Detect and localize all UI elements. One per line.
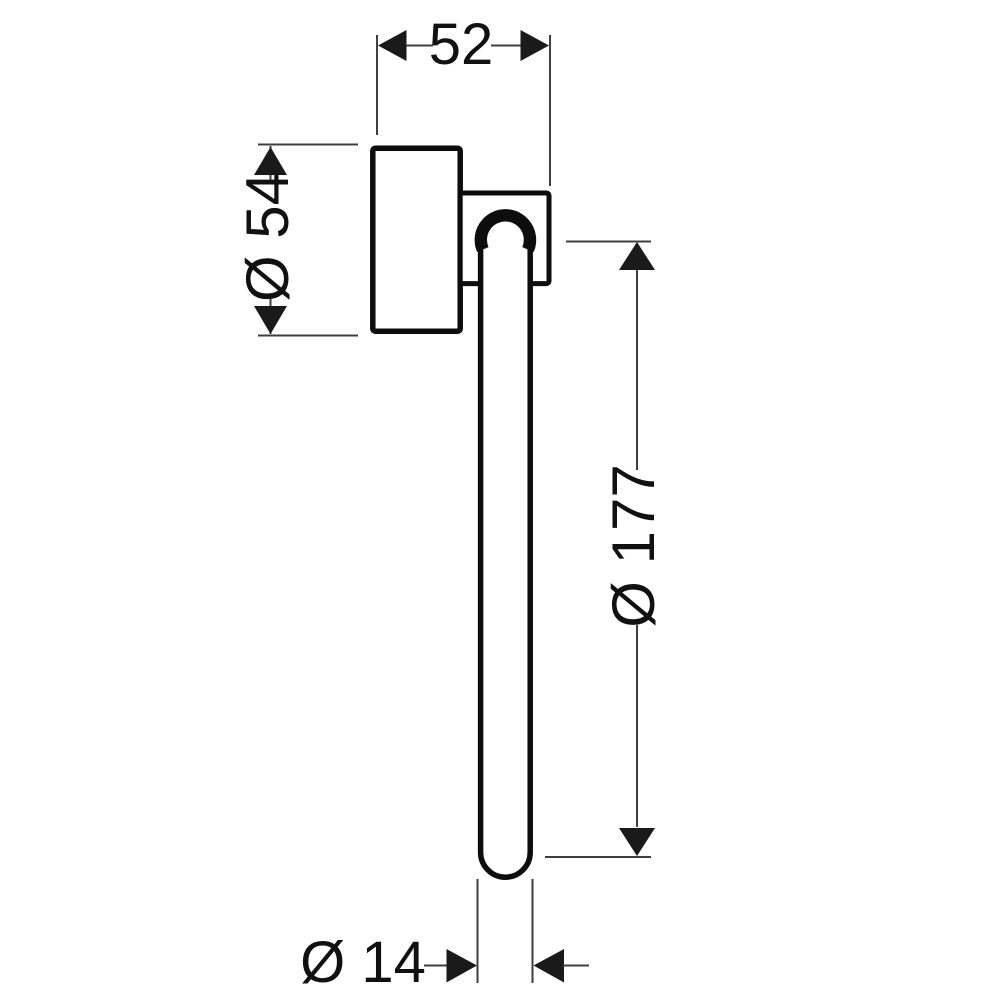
mounting bracket (square holder): [460, 193, 549, 284]
dimension O14: right extension line: [532, 879, 534, 983]
dimension O14: left arrow: [447, 949, 478, 983]
dimension 52: left extension line: [376, 35, 378, 135]
svg-text:Ø 54: Ø 54: [234, 172, 301, 302]
dimension O54: up arrow: [254, 147, 287, 175]
dimension O177: down arrow: [619, 828, 655, 856]
dimension O14: left stem: [424, 965, 448, 967]
dimension O54: top extension line: [258, 144, 358, 146]
dimension 52: right stem: [491, 45, 521, 47]
towel ring bar (capsule silhouette, white fill): [481, 215, 531, 877]
dimension 52: value label: [429, 12, 494, 77]
dimension O177: up arrow: [619, 242, 655, 270]
dimension O14: value label: [300, 930, 426, 995]
dimension O177: top extension line: [566, 241, 651, 243]
wall plate (side view rectangle): [373, 148, 460, 331]
dimension 52: left arrow: [378, 30, 407, 61]
dimension O14: left extension line: [477, 879, 479, 983]
dimension O177: value label (rotated): [600, 464, 667, 627]
dimension O177: lower stem: [636, 625, 638, 827]
dimension 52: right extension line: [549, 35, 551, 186]
dimension O14: right arrow: [534, 949, 565, 983]
dimension O54: down arrow: [254, 306, 287, 334]
svg-text:Ø 177: Ø 177: [600, 464, 667, 627]
svg-text:52: 52: [429, 12, 494, 77]
dimension 52: right arrow: [521, 30, 550, 61]
dimension O54: value label (rotated): [234, 172, 301, 302]
dimension O54: bottom extension line: [258, 335, 358, 337]
dimension 52: left stem: [406, 45, 433, 47]
dimension O54: upper stem: [270, 146, 272, 183]
dimension O177: upper stem: [636, 270, 638, 470]
dimension O54: lower stem: [270, 297, 272, 334]
towel bar top cap (thick arc): [481, 215, 530, 249]
svg-text:Ø 14: Ø 14: [300, 930, 426, 995]
dimension O14: right stem: [563, 965, 589, 967]
dimension O177: bottom extension line: [545, 856, 651, 858]
